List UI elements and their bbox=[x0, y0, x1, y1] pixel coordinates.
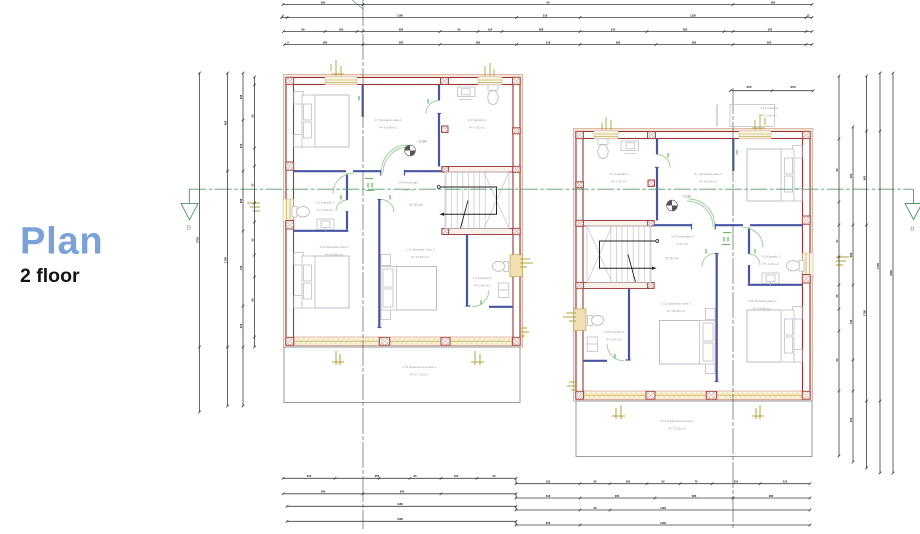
galerija above right building bbox=[730, 104, 775, 126]
svg-text:75: 75 bbox=[695, 480, 698, 484]
svg-text:90: 90 bbox=[493, 474, 496, 478]
svg-text:B: B bbox=[187, 225, 191, 232]
svg-text:455: 455 bbox=[239, 94, 243, 99]
svg-text:57,00 m2: 57,00 m2 bbox=[665, 257, 679, 261]
top dimension line 3 bbox=[284, 31, 813, 33]
svg-text:2,11 m2: 2,11 m2 bbox=[403, 188, 414, 192]
svg-text:3.10 Kupatilo 3: 3.10 Kupatilo 3 bbox=[604, 330, 625, 334]
svg-text:90: 90 bbox=[662, 480, 665, 484]
svg-text:380: 380 bbox=[476, 40, 481, 44]
svg-text:3185: 3185 bbox=[889, 270, 893, 276]
svg-text:1.7 Spavaća soba 1: 1.7 Spavaća soba 1 bbox=[374, 118, 402, 122]
svg-text:365: 365 bbox=[615, 494, 620, 498]
svg-text:1760: 1760 bbox=[862, 310, 866, 316]
right vertical dimension line 4 bbox=[879, 73, 881, 473]
svg-text:95: 95 bbox=[594, 480, 597, 484]
left vertical dimension line 2 bbox=[227, 73, 229, 406]
svg-text:255: 255 bbox=[746, 85, 751, 89]
svg-text:600: 600 bbox=[239, 198, 243, 203]
svg-text:P= 16,48 m2: P= 16,48 m2 bbox=[699, 179, 717, 183]
bottom dimension line L4 bbox=[287, 520, 516, 522]
svg-text:P= 14,50 m2: P= 14,50 m2 bbox=[411, 255, 429, 259]
bottom dimension line R4 bbox=[516, 524, 810, 526]
svg-text:37: 37 bbox=[250, 183, 254, 186]
level marker +2,80 left bbox=[405, 145, 416, 156]
galerija dimension line right bbox=[730, 90, 813, 92]
svg-text:410: 410 bbox=[849, 417, 853, 422]
svg-text:12: 12 bbox=[807, 13, 810, 17]
svg-text:385: 385 bbox=[399, 40, 404, 44]
svg-text:1.10 Spavaća soba 2: 1.10 Spavaća soba 2 bbox=[319, 245, 348, 249]
svg-text:P= 17,20 m2: P= 17,20 m2 bbox=[668, 426, 686, 430]
svg-text:385: 385 bbox=[692, 494, 697, 498]
svg-text:63: 63 bbox=[250, 114, 254, 117]
svg-text:318: 318 bbox=[546, 40, 551, 44]
svg-text:3.6 Predsoblje 3: 3.6 Predsoblje 3 bbox=[671, 235, 694, 239]
left vertical dimension line 4 bbox=[254, 77, 256, 347]
svg-text:1760: 1760 bbox=[223, 257, 227, 263]
svg-text:1.13 Natkrivena terasa 1: 1.13 Natkrivena terasa 1 bbox=[402, 365, 436, 369]
svg-text:210: 210 bbox=[783, 480, 788, 484]
svg-text:745: 745 bbox=[239, 265, 243, 270]
svg-text:160: 160 bbox=[339, 27, 344, 31]
svg-text:1130: 1130 bbox=[660, 521, 666, 525]
svg-text:1.11 Spavaća soba 3: 1.11 Spavaća soba 3 bbox=[406, 248, 435, 252]
bottom dimension line R2 bbox=[516, 497, 810, 499]
svg-text:3.14 Galerija: 3.14 Galerija bbox=[760, 106, 778, 110]
svg-text:1160: 1160 bbox=[397, 517, 403, 521]
top dimension line 4 bbox=[285, 44, 813, 46]
svg-text:385: 385 bbox=[683, 27, 688, 31]
svg-text:333: 333 bbox=[611, 27, 616, 31]
svg-text:3.9 Kupatilo 1: 3.9 Kupatilo 1 bbox=[610, 172, 629, 176]
svg-text:3.12 Spavaća soba 3: 3.12 Spavaća soba 3 bbox=[661, 302, 690, 306]
svg-text:60: 60 bbox=[250, 298, 254, 301]
svg-text:63: 63 bbox=[835, 168, 839, 171]
svg-text:P= 16,66 m2: P= 16,66 m2 bbox=[379, 125, 397, 129]
right vertical dimension line 5 bbox=[892, 73, 894, 473]
svg-text:1.9 Kupatilo 3: 1.9 Kupatilo 3 bbox=[473, 276, 492, 280]
svg-text:B: B bbox=[910, 226, 914, 233]
svg-text:385: 385 bbox=[321, 490, 326, 494]
svg-text:965: 965 bbox=[862, 175, 866, 180]
svg-text:1130: 1130 bbox=[660, 506, 666, 510]
svg-text:120: 120 bbox=[488, 27, 493, 31]
svg-text:365: 365 bbox=[400, 490, 405, 494]
svg-text:1160: 1160 bbox=[397, 502, 403, 506]
svg-text:255: 255 bbox=[626, 480, 631, 484]
svg-text:385: 385 bbox=[692, 40, 697, 44]
bottom dimension step connectors bbox=[515, 478, 517, 483]
svg-text:380: 380 bbox=[616, 40, 621, 44]
svg-text:255: 255 bbox=[790, 85, 795, 89]
svg-text:P= 4,45 m2: P= 4,45 m2 bbox=[317, 208, 333, 212]
svg-text:152: 152 bbox=[546, 480, 551, 484]
svg-text:1.4 Predsoblje: 1.4 Predsoblje bbox=[398, 181, 418, 185]
svg-text:395: 395 bbox=[321, 0, 326, 4]
svg-text:+2,80: +2,80 bbox=[683, 195, 692, 199]
svg-text:1.5 Kupatilo 2: 1.5 Kupatilo 2 bbox=[316, 201, 335, 205]
bottom dimension line L1 bbox=[283, 477, 516, 479]
svg-text:1160: 1160 bbox=[397, 13, 403, 17]
svg-text:965: 965 bbox=[223, 120, 227, 125]
bottom dimension line R1 bbox=[516, 483, 810, 485]
svg-text:380: 380 bbox=[323, 40, 328, 44]
top dimension line 2 bbox=[282, 17, 813, 19]
svg-text:2725: 2725 bbox=[195, 237, 199, 243]
svg-text:318: 318 bbox=[546, 521, 551, 525]
svg-text:1130: 1130 bbox=[690, 13, 696, 17]
svg-text:385: 385 bbox=[769, 494, 774, 498]
svg-text:P= 4,45 m2: P= 4,45 m2 bbox=[763, 262, 779, 266]
svg-text:3.7 Spavaća soba 1: 3.7 Spavaća soba 1 bbox=[694, 172, 722, 176]
bottom dimension line L3 bbox=[287, 505, 516, 507]
svg-text:455: 455 bbox=[849, 173, 853, 178]
svg-text:2 floor: 2 floor bbox=[20, 265, 80, 287]
svg-text:Plan: Plan bbox=[20, 221, 103, 263]
svg-text:363: 363 bbox=[768, 27, 773, 31]
axis marker B right bbox=[905, 189, 920, 219]
svg-text:410: 410 bbox=[239, 323, 243, 328]
right vertical dimension line 3 bbox=[866, 76, 868, 468]
svg-text:255: 255 bbox=[734, 480, 739, 484]
svg-text:95: 95 bbox=[414, 474, 417, 478]
right vertical dimension line 1 bbox=[838, 76, 840, 456]
svg-text:3.11 Spavaća soba 2: 3.11 Spavaća soba 2 bbox=[748, 299, 777, 303]
svg-text:98: 98 bbox=[302, 27, 305, 31]
svg-text:3.13 Natkrivena terasa 2: 3.13 Natkrivena terasa 2 bbox=[660, 419, 694, 423]
svg-text:318: 318 bbox=[543, 13, 548, 17]
svg-text:55: 55 bbox=[250, 238, 254, 241]
svg-text:95: 95 bbox=[594, 506, 597, 510]
bottom dimension line L2 bbox=[283, 493, 516, 495]
svg-text:510: 510 bbox=[239, 143, 243, 148]
horizontal axis line B-B bbox=[189, 188, 913, 190]
bottom dimension line R3 bbox=[516, 509, 810, 511]
svg-text:600: 600 bbox=[849, 252, 853, 257]
svg-text:318: 318 bbox=[546, 494, 551, 498]
vertical axis line right building bbox=[732, 88, 734, 529]
svg-text:1.8 Kupatilo 1: 1.8 Kupatilo 1 bbox=[468, 118, 487, 122]
svg-text:210: 210 bbox=[307, 474, 312, 478]
svg-text:P= 7,52 m2: P= 7,52 m2 bbox=[469, 125, 485, 129]
svg-text:57,00 m2: 57,00 m2 bbox=[409, 203, 423, 207]
right vertical dimension line 2 bbox=[852, 127, 854, 462]
svg-text:152: 152 bbox=[454, 474, 459, 478]
svg-text:745: 745 bbox=[849, 319, 853, 324]
svg-text:55: 55 bbox=[835, 294, 839, 297]
svg-text:P= 16,80 m2: P= 16,80 m2 bbox=[753, 306, 771, 310]
left vertical dimension line 3 bbox=[242, 73, 244, 406]
svg-text:2,11 m2: 2,11 m2 bbox=[677, 242, 688, 246]
svg-text:95: 95 bbox=[458, 27, 461, 31]
svg-text:60: 60 bbox=[835, 358, 839, 361]
svg-text:P= 3,80 m2: P= 3,80 m2 bbox=[474, 283, 490, 287]
svg-text:388: 388 bbox=[539, 27, 544, 31]
right building plan mirrored bbox=[563, 114, 849, 457]
left vertical dimension line 1 bbox=[199, 73, 201, 412]
svg-text:2725: 2725 bbox=[876, 263, 880, 269]
top dimension line 1 bbox=[283, 4, 812, 6]
axis marker B left bbox=[181, 189, 198, 220]
svg-text:385: 385 bbox=[399, 27, 404, 31]
svg-text:+2,80: +2,80 bbox=[418, 140, 427, 144]
svg-text:255: 255 bbox=[375, 474, 380, 478]
left building plan (mirrorable group) bbox=[247, 60, 533, 403]
svg-text:P= 14,50 m2: P= 14,50 m2 bbox=[667, 309, 685, 313]
svg-text:395: 395 bbox=[771, 0, 776, 4]
svg-text:37: 37 bbox=[835, 239, 839, 242]
level marker +2,80 right bbox=[667, 200, 678, 211]
axis slash mark top bbox=[352, 0, 363, 9]
svg-text:P= 7,45 m2: P= 7,45 m2 bbox=[611, 179, 627, 183]
svg-text:P= 17,20 m2: P= 17,20 m2 bbox=[410, 372, 428, 376]
svg-text:90: 90 bbox=[547, 0, 550, 4]
vertical axis line left building bbox=[362, 0, 364, 529]
svg-text:P= 16,80 m2: P= 16,80 m2 bbox=[325, 252, 343, 256]
svg-text:365: 365 bbox=[767, 40, 772, 44]
svg-text:3.8 Kupatilo 2: 3.8 Kupatilo 2 bbox=[762, 255, 781, 259]
svg-text:P= 1,98 m2: P= 1,98 m2 bbox=[761, 113, 777, 117]
svg-text:P= 3,80 m2: P= 3,80 m2 bbox=[606, 337, 622, 341]
